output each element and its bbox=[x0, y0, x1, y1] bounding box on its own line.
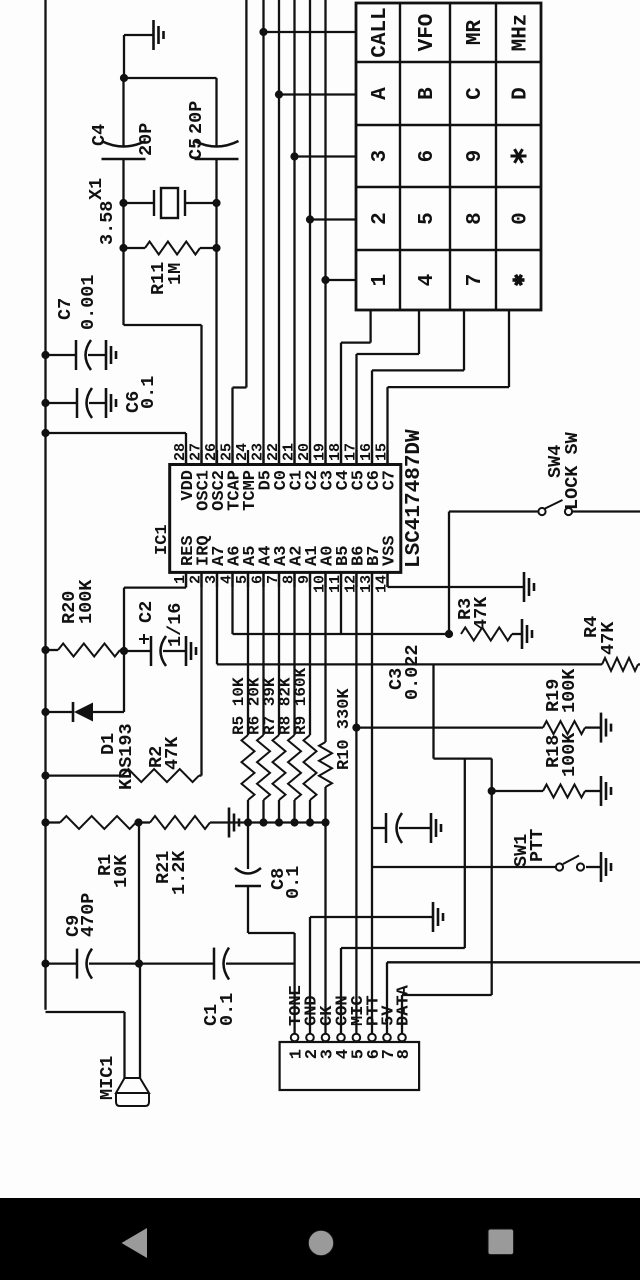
svg-text:8: 8 bbox=[464, 212, 487, 225]
keypad matrix bbox=[356, 3, 541, 310]
svg-text:R10 330K: R10 330K bbox=[335, 688, 354, 770]
svg-text:C5: C5 bbox=[186, 138, 207, 160]
recents button bbox=[488, 1229, 514, 1255]
svg-text:C4: C4 bbox=[89, 124, 110, 146]
resistor R2 bbox=[46, 572, 202, 782]
svg-text:MR: MR bbox=[464, 20, 487, 46]
svg-text:5: 5 bbox=[416, 212, 439, 225]
home button bbox=[308, 1230, 333, 1255]
resistor R6 bbox=[246, 572, 271, 826]
svg-text:VSS: VSS bbox=[381, 535, 400, 566]
svg-text:6: 6 bbox=[416, 150, 439, 163]
ground VSS bbox=[524, 572, 534, 602]
wire A6 net bbox=[233, 512, 453, 638]
wire C2 column 2 bbox=[306, 0, 356, 465]
wire VDD top bus bbox=[42, 0, 49, 1010]
svg-text:0: 0 bbox=[510, 212, 533, 225]
wire GND net bbox=[310, 917, 433, 1033]
resistor R1 bbox=[46, 816, 137, 888]
svg-text:47K: 47K bbox=[598, 621, 619, 655]
wire mic node bbox=[135, 823, 142, 968]
capacitor C1 bbox=[140, 948, 295, 1026]
resistor R18 bbox=[492, 732, 601, 798]
svg-text:CALL: CALL bbox=[369, 7, 392, 57]
svg-text:1/16: 1/16 bbox=[165, 603, 186, 647]
wire VSS to ground bbox=[388, 572, 525, 587]
svg-text:0.1: 0.1 bbox=[138, 376, 159, 409]
wire D5 column CALL bbox=[260, 0, 356, 465]
resistor R10 bbox=[319, 572, 354, 1033]
capacitor C5 bbox=[186, 101, 239, 160]
svg-text:47K: 47K bbox=[471, 596, 492, 630]
svg-text:3: 3 bbox=[203, 575, 220, 584]
svg-text:VFO: VFO bbox=[416, 14, 439, 52]
ground GND pin bbox=[433, 902, 443, 932]
svg-text:0.022: 0.022 bbox=[402, 644, 423, 700]
svg-text:IC1: IC1 bbox=[153, 524, 172, 555]
svg-text:7: 7 bbox=[265, 575, 282, 584]
svg-text:100K: 100K bbox=[76, 579, 97, 624]
svg-text:MIC1: MIC1 bbox=[97, 1056, 118, 1100]
ground R3 bbox=[522, 619, 532, 649]
capacitor C4 bbox=[89, 123, 157, 159]
resistor R4 bbox=[581, 616, 640, 671]
svg-text:14: 14 bbox=[374, 575, 391, 593]
ground oscillator bbox=[124, 20, 164, 50]
wire CON net bbox=[341, 948, 465, 1033]
crystal X1 bbox=[86, 178, 217, 245]
svg-text:0.1: 0.1 bbox=[217, 993, 238, 1026]
wire C3 column 1 bbox=[322, 0, 356, 465]
back button bbox=[122, 1228, 148, 1258]
resistor R5 bbox=[230, 572, 255, 826]
svg-text:26: 26 bbox=[203, 443, 220, 461]
capacitor C9 bbox=[46, 893, 140, 979]
diode D1 KDS193 bbox=[46, 702, 138, 790]
svg-text:1: 1 bbox=[369, 274, 392, 287]
wire C7 keypad row 4 bbox=[388, 310, 510, 465]
svg-text:11: 11 bbox=[327, 575, 344, 593]
capacitor C2 electrolytic bbox=[124, 601, 186, 666]
wire osc ground link bbox=[120, 35, 216, 82]
ground R19 bbox=[601, 713, 611, 743]
svg-text:LSC417487DW: LSC417487DW bbox=[403, 429, 426, 568]
wire B7 PTT net bbox=[371, 572, 373, 1033]
wire 5V net bbox=[387, 962, 640, 1033]
svg-text:4: 4 bbox=[416, 274, 439, 287]
wire RES node bbox=[120, 572, 186, 712]
ground R18 bbox=[601, 776, 611, 806]
svg-text:4: 4 bbox=[219, 575, 236, 584]
resistor R11 bbox=[124, 242, 217, 296]
svg-text:20P: 20P bbox=[186, 101, 207, 134]
connector MIC jack bbox=[280, 984, 420, 1090]
op-amp IC1 LSC417487DW bbox=[153, 429, 426, 593]
svg-text:C7: C7 bbox=[55, 298, 76, 320]
wire C0 column A bbox=[275, 0, 356, 465]
svg-text:MHz: MHz bbox=[510, 14, 533, 52]
svg-text:KDS193: KDS193 bbox=[116, 723, 137, 790]
svg-text:3.58: 3.58 bbox=[97, 201, 118, 245]
wire TONE net bbox=[248, 933, 295, 1033]
wire C1 column 3 bbox=[291, 0, 356, 465]
svg-text:10: 10 bbox=[312, 575, 329, 593]
svg-text:12: 12 bbox=[343, 575, 360, 593]
svg-text:8: 8 bbox=[395, 1049, 414, 1059]
wire OSC2 rail bbox=[213, 78, 220, 465]
capacitor C8 bbox=[235, 823, 304, 934]
capacitor C3 bbox=[372, 644, 431, 843]
svg-text:8: 8 bbox=[281, 575, 298, 584]
svg-text:100K: 100K bbox=[559, 732, 580, 777]
ground C7 bbox=[106, 340, 116, 370]
svg-text:9: 9 bbox=[296, 575, 313, 584]
switch SW1 PTT bbox=[372, 829, 601, 871]
svg-text:R9 160K: R9 160K bbox=[292, 667, 310, 735]
microphone MIC1 bbox=[46, 964, 150, 1106]
svg-text:1: 1 bbox=[172, 575, 189, 584]
android navigation bar bbox=[0, 1198, 640, 1280]
svg-text:470P: 470P bbox=[78, 893, 99, 937]
wire C5 keypad row 2 bbox=[357, 310, 420, 465]
svg-text:0.001: 0.001 bbox=[78, 274, 99, 330]
svg-text:A: A bbox=[369, 87, 392, 100]
svg-text:47K: 47K bbox=[162, 736, 183, 770]
resistor R20 bbox=[46, 579, 125, 657]
svg-text:24: 24 bbox=[234, 443, 251, 461]
svg-text:X1: X1 bbox=[86, 178, 107, 200]
svg-text:10K: 10K bbox=[111, 854, 132, 888]
capacitor C7 bbox=[46, 274, 107, 370]
svg-text:28: 28 bbox=[172, 443, 189, 461]
svg-text:B: B bbox=[416, 87, 439, 100]
wire B6 MIC net bbox=[353, 572, 360, 1033]
resistor R3 bbox=[455, 596, 522, 641]
svg-text:100K: 100K bbox=[559, 668, 580, 713]
ground C6 bbox=[106, 388, 116, 418]
svg-text:7: 7 bbox=[464, 274, 487, 287]
resistor R7 bbox=[261, 572, 286, 826]
ground C3 bbox=[431, 813, 441, 843]
svg-text:D: D bbox=[510, 87, 533, 100]
wire C4 keypad row 1 bbox=[341, 310, 371, 465]
ground C2 bbox=[186, 636, 196, 666]
resistor R19 bbox=[356, 668, 601, 734]
svg-text:2: 2 bbox=[188, 575, 205, 584]
svg-text:3: 3 bbox=[369, 150, 392, 163]
svg-text:DATA: DATA bbox=[395, 984, 414, 1026]
resistor R21 bbox=[135, 816, 326, 895]
capacitor C6 bbox=[46, 376, 160, 418]
wire A7 net bbox=[217, 572, 602, 995]
svg-text:9: 9 bbox=[464, 150, 487, 163]
svg-text:2: 2 bbox=[369, 212, 392, 225]
svg-text:0.1: 0.1 bbox=[283, 866, 304, 899]
resistor R8 bbox=[277, 572, 302, 826]
svg-text:C: C bbox=[464, 87, 487, 100]
svg-text:C2: C2 bbox=[136, 601, 157, 623]
ground SW1 bbox=[601, 852, 611, 882]
switch SW4 LOCK SW bbox=[449, 431, 640, 515]
resistor R9 bbox=[292, 572, 317, 826]
svg-text:13: 13 bbox=[358, 575, 375, 593]
svg-text:1.2K: 1.2K bbox=[169, 850, 190, 895]
svg-text:6: 6 bbox=[250, 575, 267, 584]
svg-text:C7: C7 bbox=[381, 470, 400, 490]
wire OSC1 rail bbox=[120, 78, 202, 465]
wire VDD to pin 28 bbox=[46, 433, 187, 465]
svg-text:PTT: PTT bbox=[527, 829, 548, 862]
wire DATA net bbox=[402, 995, 492, 1033]
wire C6 keypad row 3 bbox=[372, 310, 464, 465]
svg-text:20P: 20P bbox=[136, 123, 157, 156]
svg-text:LOCK SW: LOCK SW bbox=[562, 431, 583, 510]
svg-text:27: 27 bbox=[188, 443, 205, 461]
svg-text:1M: 1M bbox=[165, 263, 186, 285]
ground tap R21 bbox=[229, 808, 239, 838]
svg-text:5: 5 bbox=[234, 575, 251, 584]
wire TCAP line bbox=[233, 0, 247, 465]
